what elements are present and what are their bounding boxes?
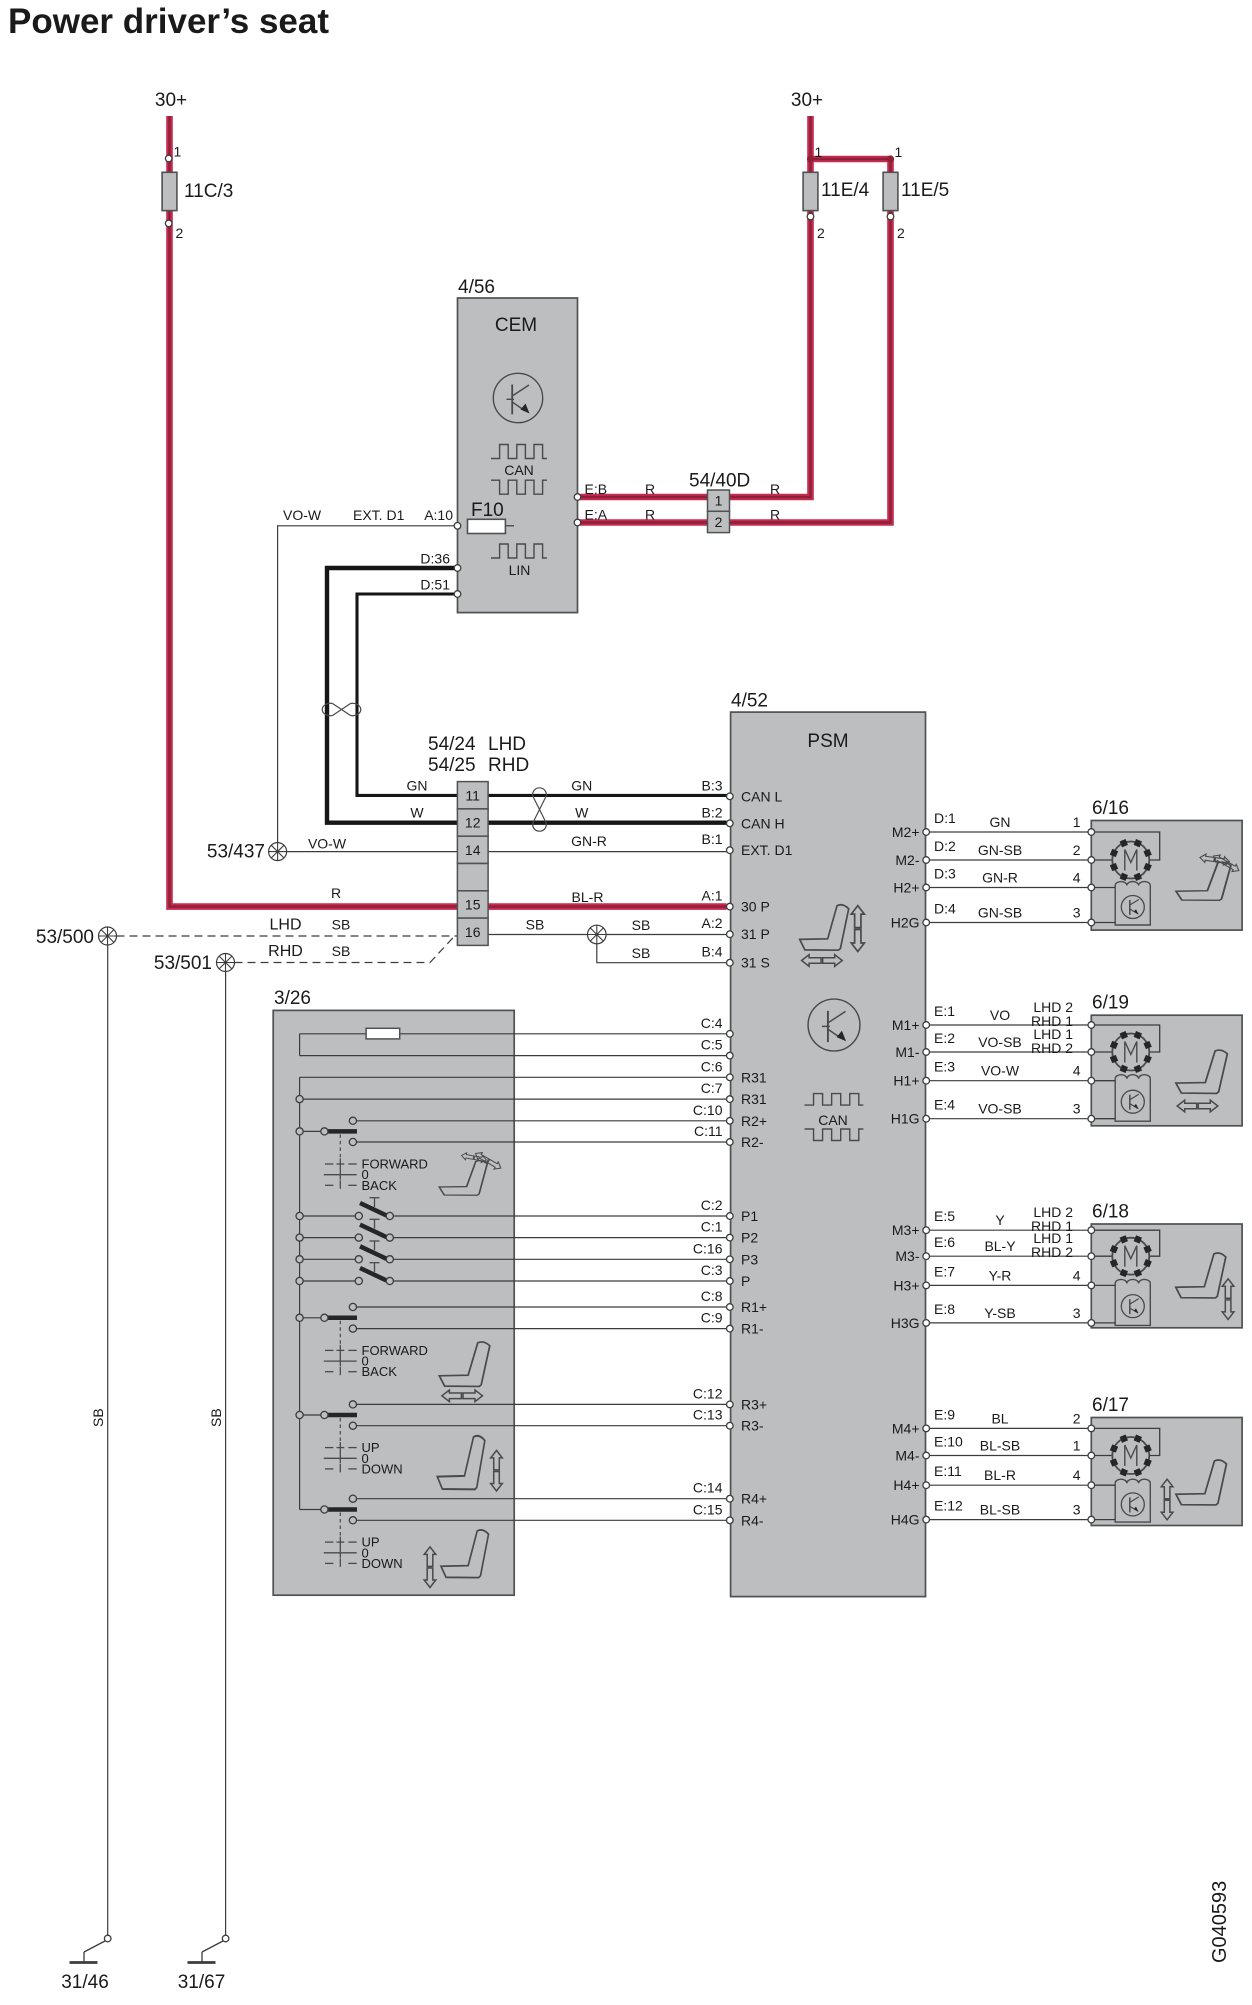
svg-text:M2-: M2- bbox=[895, 852, 919, 868]
wire C:6 row bbox=[300, 1076, 727, 1078]
svg-text:B:4: B:4 bbox=[701, 944, 722, 960]
wire: left bus of 3/26 bbox=[299, 1077, 301, 1509]
wire: SB from 53/501 down to ground 31/67 bbox=[225, 972, 227, 1936]
svg-text:SB: SB bbox=[332, 943, 351, 959]
pin C:12 of PSM bbox=[727, 1401, 734, 1408]
wire: SB from 53/500 down to ground 31/46 bbox=[107, 945, 109, 1935]
svg-text:6/16: 6/16 bbox=[1092, 798, 1129, 819]
svg-text:F10: F10 bbox=[471, 500, 504, 521]
svg-text:C:12: C:12 bbox=[693, 1385, 723, 1401]
svg-text:2: 2 bbox=[176, 225, 184, 241]
svg-text:H3+: H3+ bbox=[893, 1277, 919, 1293]
pin M2- of PSM bbox=[923, 857, 930, 864]
svg-text:3: 3 bbox=[1073, 1502, 1081, 1518]
svg-text:CAN H: CAN H bbox=[741, 815, 785, 831]
pin M1+ of PSM bbox=[923, 1022, 930, 1029]
svg-text:D:51: D:51 bbox=[420, 577, 450, 593]
svg-text:6/19: 6/19 bbox=[1092, 993, 1129, 1014]
svg-text:4: 4 bbox=[1073, 1267, 1081, 1283]
svg-text:C:10: C:10 bbox=[693, 1102, 723, 1118]
svg-text:C:11: C:11 bbox=[694, 1123, 723, 1139]
pin 2 of fuse 11E/5 bbox=[887, 213, 894, 220]
pin C:8 of PSM bbox=[727, 1304, 734, 1311]
pin 2 of fuse 11E/4 bbox=[807, 213, 814, 220]
wire: SB branch from splice down to PSM B:4 31 S bbox=[597, 935, 727, 963]
switch R2 (slide switch) bbox=[303, 1130, 321, 1132]
svg-text:C:9: C:9 bbox=[701, 1310, 723, 1326]
svg-text:6/17: 6/17 bbox=[1092, 1395, 1129, 1416]
svg-text:53/437: 53/437 bbox=[207, 842, 265, 863]
motor M circuit bbox=[1095, 1230, 1160, 1256]
svg-text:4/52: 4/52 bbox=[731, 691, 768, 712]
svg-text:CAN: CAN bbox=[504, 462, 534, 478]
motor assembly 6/19 bbox=[1091, 1015, 1242, 1126]
svg-text:R4-: R4- bbox=[741, 1512, 764, 1528]
svg-text:CEM: CEM bbox=[495, 315, 537, 336]
svg-text:SB: SB bbox=[526, 917, 545, 933]
svg-text:B:3: B:3 bbox=[701, 777, 722, 793]
connector 54/40D bbox=[708, 490, 730, 511]
wire: SB from connector pin 16 to PSM A:2 31 P bbox=[488, 934, 726, 936]
ladder UP/0/DOWN for R3 bbox=[339, 1418, 341, 1442]
pin C:6 of PSM bbox=[727, 1074, 734, 1081]
pin H2G of PSM bbox=[923, 919, 930, 926]
svg-text:D:3: D:3 bbox=[934, 866, 956, 882]
svg-text:H2+: H2+ bbox=[893, 880, 919, 896]
svg-text:BL-SB: BL-SB bbox=[980, 1438, 1020, 1454]
svg-text:54/24: 54/24 bbox=[428, 734, 476, 755]
svg-text:53/500: 53/500 bbox=[36, 927, 94, 948]
svg-text:D:4: D:4 bbox=[934, 901, 956, 917]
pin H2+ of PSM bbox=[923, 884, 930, 891]
motor M circuit bbox=[1095, 832, 1160, 860]
wires from PSM to 6/17 bbox=[929, 1427, 1088, 1429]
svg-text:W: W bbox=[410, 805, 424, 821]
svg-text:RHD 2: RHD 2 bbox=[1031, 1040, 1073, 1056]
wire: LIN D:36 thick black to connector 54/24 pin 12 and on to PSM B:2 CAN H bbox=[327, 568, 727, 823]
svg-text:M4+: M4+ bbox=[892, 1420, 920, 1436]
wire: red link between fuse 11E/4 and 11E/5 tops bbox=[811, 156, 891, 163]
svg-text:E:11: E:11 bbox=[934, 1463, 962, 1479]
twisted pair symbol on vertical LIN wires bbox=[333, 704, 351, 716]
svg-text:E:5: E:5 bbox=[934, 1208, 955, 1224]
svg-text:M2+: M2+ bbox=[892, 824, 920, 840]
svg-text:30+: 30+ bbox=[155, 90, 187, 111]
op-amp/ECU CEM 4/56 bbox=[458, 298, 578, 613]
switch P row 1 bbox=[303, 1215, 355, 1217]
ground 31/67 bbox=[178, 1935, 229, 1993]
svg-text:GN: GN bbox=[407, 777, 428, 793]
wire C:12 row bbox=[353, 1403, 727, 1405]
wire: GN from splice 53/437 to connector pin 14 and GN-R on to PSM B:1 bbox=[278, 851, 727, 853]
svg-text:11: 11 bbox=[465, 787, 480, 803]
svg-text:M1+: M1+ bbox=[892, 1017, 920, 1033]
svg-text:11E/4: 11E/4 bbox=[821, 180, 870, 201]
svg-text:3: 3 bbox=[1073, 1305, 1081, 1321]
CAN symbol in CEM bbox=[491, 445, 547, 459]
motor M circuit bbox=[1095, 1025, 1160, 1052]
svg-text:1: 1 bbox=[815, 144, 823, 160]
svg-text:R: R bbox=[645, 481, 655, 497]
svg-text:C:16: C:16 bbox=[693, 1240, 723, 1256]
svg-text:R2+: R2+ bbox=[741, 1113, 767, 1129]
svg-text:C:5: C:5 bbox=[701, 1037, 723, 1053]
svg-text:BL-SB: BL-SB bbox=[980, 1502, 1020, 1518]
pin 2 of fuse 11C/3 bbox=[165, 220, 172, 227]
svg-text:2: 2 bbox=[817, 225, 825, 241]
splice 53/437 bbox=[269, 843, 287, 861]
wire: red feed down through fuse 11E/4 to CEM E:B bbox=[578, 116, 811, 497]
svg-text:R2-: R2- bbox=[741, 1134, 764, 1150]
svg-text:R: R bbox=[770, 507, 780, 523]
pin H1+ of PSM bbox=[923, 1077, 930, 1084]
wire C:4 row with resistor bbox=[300, 1033, 727, 1035]
svg-text:3: 3 bbox=[1073, 1101, 1081, 1117]
svg-text:E:B: E:B bbox=[585, 481, 608, 497]
svg-text:VO-W: VO-W bbox=[283, 507, 322, 523]
motor M circuit bbox=[1095, 1428, 1160, 1455]
connector 54/24 LHD / 54/25 RHD bbox=[457, 782, 488, 809]
svg-text:1: 1 bbox=[1073, 1438, 1081, 1454]
pin M3- of PSM bbox=[923, 1253, 930, 1260]
wire C:9 row bbox=[353, 1328, 727, 1330]
op-amp/ECU PSM 4/52 bbox=[731, 712, 926, 1597]
relay/clutch box bbox=[1115, 1483, 1150, 1522]
resistor in 3/26 bbox=[366, 1028, 400, 1039]
svg-text:3: 3 bbox=[1073, 905, 1081, 921]
wire C:8 row bbox=[353, 1306, 727, 1308]
seat icon in PSM bbox=[800, 905, 849, 950]
svg-text:C:6: C:6 bbox=[701, 1058, 723, 1074]
ladder FORWARD/0/BACK for R2 bbox=[339, 1134, 341, 1158]
svg-text:E:7: E:7 bbox=[934, 1263, 955, 1279]
svg-text:31/46: 31/46 bbox=[61, 1972, 109, 1993]
svg-text:H4+: H4+ bbox=[893, 1477, 919, 1493]
svg-text:VO: VO bbox=[990, 1007, 1010, 1023]
svg-text:E:4: E:4 bbox=[934, 1097, 955, 1113]
svg-text:4/56: 4/56 bbox=[458, 277, 495, 298]
svg-text:E:10: E:10 bbox=[934, 1434, 963, 1450]
seat icon with up/down arrow left (R4) bbox=[441, 1530, 489, 1578]
svg-text:BACK: BACK bbox=[362, 1178, 398, 1193]
svg-text:EXT. D1: EXT. D1 bbox=[353, 507, 405, 523]
svg-text:P: P bbox=[741, 1273, 750, 1289]
pin C:9 of PSM bbox=[727, 1325, 734, 1332]
svg-text:SB: SB bbox=[632, 945, 651, 961]
CAN symbol in PSM bbox=[805, 1094, 864, 1106]
svg-text:E:3: E:3 bbox=[934, 1059, 955, 1075]
svg-text:GN-SB: GN-SB bbox=[978, 842, 1022, 858]
fuse 11C/3 bbox=[162, 172, 177, 210]
svg-text:A:10: A:10 bbox=[424, 507, 453, 523]
svg-text:P3: P3 bbox=[741, 1251, 758, 1267]
seat icon with up/down arrow (R3) bbox=[437, 1436, 485, 1490]
svg-text:4: 4 bbox=[1073, 1063, 1081, 1079]
wire C:7 row bbox=[300, 1098, 727, 1100]
pin A:1 of PSM bbox=[727, 903, 734, 910]
svg-text:16: 16 bbox=[465, 924, 481, 940]
svg-text:30 P: 30 P bbox=[741, 899, 770, 915]
wire: red battery feed from 30+ through fuse 11C/3 down to connector pin 15 bbox=[170, 116, 727, 907]
svg-text:VO-W: VO-W bbox=[981, 1063, 1020, 1079]
svg-text:BL-R: BL-R bbox=[572, 889, 604, 905]
fuse F10 in CEM bbox=[505, 525, 514, 527]
transistor symbol in PSM bbox=[808, 999, 860, 1051]
pin M4+ of PSM bbox=[923, 1425, 930, 1432]
svg-text:A:2: A:2 bbox=[701, 915, 722, 931]
wire: VO-W from CEM A:10 down to splice 53/437 bbox=[278, 526, 458, 852]
svg-text:H3G: H3G bbox=[891, 1315, 920, 1331]
svg-text:C:4: C:4 bbox=[701, 1015, 723, 1031]
svg-text:FORWARD: FORWARD bbox=[362, 1343, 428, 1358]
ladder UP/0/DOWN for R4 bbox=[339, 1513, 341, 1537]
svg-text:GN: GN bbox=[990, 814, 1011, 830]
pin B:3 of PSM bbox=[727, 793, 734, 800]
seat icon with slide arrows (R2) bbox=[439, 1161, 487, 1196]
switch P row 2 bbox=[303, 1237, 355, 1239]
pin H4G of PSM bbox=[923, 1516, 930, 1523]
svg-text:1: 1 bbox=[895, 144, 903, 160]
pin C:16 of PSM bbox=[727, 1256, 734, 1263]
svg-text:RHD: RHD bbox=[488, 755, 529, 776]
wire C:10 row bbox=[353, 1120, 727, 1122]
svg-text:GN-R: GN-R bbox=[571, 833, 607, 849]
wire: dashed SB LHD from 53/500 to connector pin 16 bbox=[117, 935, 458, 937]
wires from PSM to 6/16 bbox=[929, 831, 1088, 833]
svg-text:M3+: M3+ bbox=[892, 1222, 920, 1238]
svg-text:M3-: M3- bbox=[895, 1248, 919, 1264]
svg-text:VO-SB: VO-SB bbox=[978, 1101, 1022, 1117]
svg-text:FORWARD: FORWARD bbox=[362, 1157, 428, 1172]
svg-text:E:12: E:12 bbox=[934, 1498, 963, 1514]
splice on SB wire bbox=[588, 925, 607, 944]
switch module 3/26 bbox=[273, 1010, 514, 1595]
pin M2+ of PSM bbox=[923, 829, 930, 836]
svg-text:EXT. D1: EXT. D1 bbox=[741, 842, 793, 858]
svg-text:D:36: D:36 bbox=[420, 551, 450, 567]
pin A:2 of PSM bbox=[727, 931, 734, 938]
svg-text:H1+: H1+ bbox=[893, 1073, 919, 1089]
switch R3 bbox=[303, 1414, 321, 1416]
svg-text:E:2: E:2 bbox=[934, 1030, 955, 1046]
pin B:2 of PSM bbox=[727, 820, 734, 827]
pin C:15 of PSM bbox=[727, 1517, 734, 1524]
pin B:4 of PSM bbox=[727, 959, 734, 966]
svg-text:BL: BL bbox=[991, 1410, 1008, 1426]
svg-text:C:3: C:3 bbox=[701, 1262, 723, 1278]
LIN symbol in CEM bbox=[491, 544, 547, 558]
svg-text:SB: SB bbox=[632, 917, 651, 933]
junction dots at 30+ tee bbox=[807, 155, 814, 162]
svg-text:CAN L: CAN L bbox=[741, 788, 782, 804]
svg-text:BACK: BACK bbox=[362, 1364, 398, 1379]
svg-text:LIN: LIN bbox=[509, 562, 531, 578]
svg-text:DOWN: DOWN bbox=[362, 1556, 403, 1571]
svg-text:RHD: RHD bbox=[268, 943, 303, 960]
svg-text:R3-: R3- bbox=[741, 1418, 764, 1434]
twisted pair symbol on CAN wires right of connector bbox=[534, 798, 546, 822]
pin E:A of CEM bbox=[574, 519, 581, 526]
pin H1G of PSM bbox=[923, 1115, 930, 1122]
switch R1 bbox=[303, 1317, 321, 1319]
seat icon with slide arrow below (R1) bbox=[439, 1342, 489, 1386]
svg-text:E:1: E:1 bbox=[934, 1003, 955, 1019]
svg-text:H1G: H1G bbox=[891, 1111, 920, 1127]
wire: loop joining C:4 and C:5 bbox=[299, 1034, 301, 1056]
svg-text:2: 2 bbox=[1073, 1410, 1081, 1426]
svg-text:DOWN: DOWN bbox=[362, 1461, 403, 1476]
svg-text:C:15: C:15 bbox=[693, 1501, 723, 1517]
svg-text:G040593: G040593 bbox=[1209, 1881, 1231, 1963]
svg-text:C:1: C:1 bbox=[701, 1219, 723, 1235]
wire C:5 row bbox=[300, 1055, 727, 1057]
wire: LIN D:51 black to connector 54/24 pin 11 and on to PSM B:3 CAN L bbox=[357, 594, 727, 795]
fuse 11E/5 bbox=[883, 172, 898, 210]
svg-text:E:9: E:9 bbox=[934, 1406, 955, 1422]
svg-text:M4-: M4- bbox=[895, 1448, 919, 1464]
svg-text:53/501: 53/501 bbox=[154, 953, 212, 974]
svg-text:RHD 2: RHD 2 bbox=[1031, 1244, 1073, 1260]
svg-text:B:1: B:1 bbox=[701, 831, 722, 847]
svg-text:54/25: 54/25 bbox=[428, 755, 476, 776]
pin C:4 of PSM bbox=[727, 1031, 734, 1038]
svg-text:R31: R31 bbox=[741, 1091, 767, 1107]
wire: red feed through fuse 11E/5 to CEM E:A bbox=[578, 159, 891, 523]
wires from PSM to 6/18 bbox=[929, 1229, 1088, 1231]
svg-text:R3+: R3+ bbox=[741, 1396, 767, 1412]
wire: dashed SB RHD from 53/501 to connector pin 16 bbox=[235, 935, 457, 963]
svg-text:A:1: A:1 bbox=[701, 888, 722, 904]
pin M1- of PSM bbox=[923, 1049, 930, 1056]
pin M3+ of PSM bbox=[923, 1227, 930, 1234]
switch P row 4 bbox=[303, 1280, 355, 1282]
drawing number G040593 bbox=[1209, 1881, 1231, 1963]
pin C:14 of PSM bbox=[727, 1495, 734, 1502]
svg-text:1: 1 bbox=[1073, 814, 1081, 830]
svg-text:R4+: R4+ bbox=[741, 1491, 767, 1507]
svg-text:R1+: R1+ bbox=[741, 1299, 767, 1315]
svg-text:SB: SB bbox=[90, 1408, 106, 1427]
svg-text:E:6: E:6 bbox=[934, 1234, 955, 1250]
svg-text:R: R bbox=[645, 507, 655, 523]
svg-text:C:7: C:7 bbox=[701, 1080, 723, 1096]
svg-text:C:8: C:8 bbox=[701, 1288, 723, 1304]
svg-text:E:A: E:A bbox=[585, 507, 608, 523]
svg-text:Y-SB: Y-SB bbox=[984, 1305, 1015, 1321]
motor assembly 6/18 bbox=[1091, 1224, 1242, 1328]
fuse 11E/4 bbox=[803, 172, 818, 210]
pin A:10 of CEM bbox=[454, 523, 461, 530]
svg-text:CAN: CAN bbox=[818, 1112, 848, 1128]
pin C:1 of PSM bbox=[727, 1234, 734, 1241]
svg-text:M1-: M1- bbox=[895, 1044, 919, 1060]
motor assembly 6/16 bbox=[1091, 821, 1242, 931]
svg-text:VO-SB: VO-SB bbox=[978, 1034, 1022, 1050]
pin C:2 of PSM bbox=[727, 1213, 734, 1220]
svg-text:15: 15 bbox=[465, 896, 481, 912]
svg-text:LHD: LHD bbox=[488, 734, 526, 755]
wires from PSM to 6/19 bbox=[929, 1024, 1088, 1026]
pin C:3 of PSM bbox=[727, 1278, 734, 1285]
svg-text:GN-SB: GN-SB bbox=[978, 905, 1022, 921]
svg-text:W: W bbox=[575, 805, 589, 821]
svg-text:LHD: LHD bbox=[269, 917, 301, 934]
ladder FORWARD/0/BACK for R1 bbox=[339, 1321, 341, 1345]
svg-text:PSM: PSM bbox=[807, 731, 848, 752]
pin C:7 of PSM bbox=[727, 1096, 734, 1103]
pin D:36 of CEM bbox=[454, 565, 461, 572]
svg-text:R: R bbox=[770, 481, 780, 497]
wire C:15 row bbox=[353, 1519, 727, 1521]
svg-text:SB: SB bbox=[332, 917, 351, 933]
pin C:10 of PSM bbox=[727, 1118, 734, 1125]
svg-text:C:13: C:13 bbox=[693, 1407, 723, 1423]
svg-text:4: 4 bbox=[1073, 1467, 1081, 1483]
svg-text:2: 2 bbox=[897, 225, 905, 241]
pin 1 of fuse 11C/3 bbox=[165, 155, 172, 162]
svg-text:4: 4 bbox=[1073, 870, 1081, 886]
svg-text:GN-R: GN-R bbox=[982, 870, 1018, 886]
pin C:5 of PSM bbox=[727, 1052, 734, 1059]
svg-text:31 P: 31 P bbox=[741, 926, 770, 942]
svg-text:12: 12 bbox=[465, 815, 481, 831]
wire C:13 row bbox=[353, 1425, 727, 1427]
relay/clutch box bbox=[1115, 1079, 1150, 1122]
pin C:13 of PSM bbox=[727, 1422, 734, 1429]
svg-text:1: 1 bbox=[174, 144, 182, 160]
pin M4- of PSM bbox=[923, 1452, 930, 1459]
pin H3+ of PSM bbox=[923, 1282, 930, 1289]
svg-text:11E/5: 11E/5 bbox=[901, 180, 949, 201]
svg-text:R1-: R1- bbox=[741, 1321, 764, 1337]
svg-text:2: 2 bbox=[1073, 842, 1081, 858]
switch R4 bbox=[300, 1509, 321, 1511]
svg-text:R: R bbox=[331, 885, 341, 901]
svg-text:E:8: E:8 bbox=[934, 1301, 955, 1317]
pin C:11 of PSM bbox=[727, 1139, 734, 1146]
svg-text:Power driver’s seat: Power driver’s seat bbox=[8, 2, 329, 41]
svg-text:BL-R: BL-R bbox=[984, 1467, 1016, 1483]
svg-text:C:2: C:2 bbox=[701, 1197, 723, 1213]
svg-text:Y: Y bbox=[995, 1212, 1005, 1228]
pin D:51 of CEM bbox=[454, 591, 461, 598]
svg-text:SB: SB bbox=[208, 1408, 224, 1427]
svg-text:GN: GN bbox=[571, 777, 592, 793]
svg-text:D:1: D:1 bbox=[934, 810, 956, 826]
svg-text:H4G: H4G bbox=[891, 1512, 920, 1528]
pin H3G of PSM bbox=[923, 1320, 930, 1327]
svg-text:3/26: 3/26 bbox=[274, 988, 311, 1009]
svg-text:11C/3: 11C/3 bbox=[184, 181, 233, 202]
svg-text:31/67: 31/67 bbox=[178, 1972, 226, 1993]
relay/clutch box bbox=[1115, 1283, 1150, 1325]
svg-text:P2: P2 bbox=[741, 1230, 758, 1246]
svg-text:31 S: 31 S bbox=[741, 955, 770, 971]
wire C:11 row bbox=[353, 1141, 727, 1143]
pin E:B of CEM bbox=[574, 494, 581, 501]
motor assembly 6/17 bbox=[1091, 1418, 1242, 1526]
svg-text:54/40D: 54/40D bbox=[689, 471, 750, 492]
ground 31/46 bbox=[61, 1935, 111, 1993]
svg-text:Y-R: Y-R bbox=[989, 1267, 1012, 1283]
wire C:14 row bbox=[353, 1498, 727, 1500]
pin B:1 of PSM bbox=[727, 847, 734, 854]
svg-text:R31: R31 bbox=[741, 1069, 767, 1085]
svg-text:1: 1 bbox=[715, 493, 723, 509]
svg-text:BL-Y: BL-Y bbox=[984, 1238, 1016, 1254]
svg-text:VO-W: VO-W bbox=[308, 836, 347, 852]
svg-text:6/18: 6/18 bbox=[1092, 1202, 1129, 1223]
